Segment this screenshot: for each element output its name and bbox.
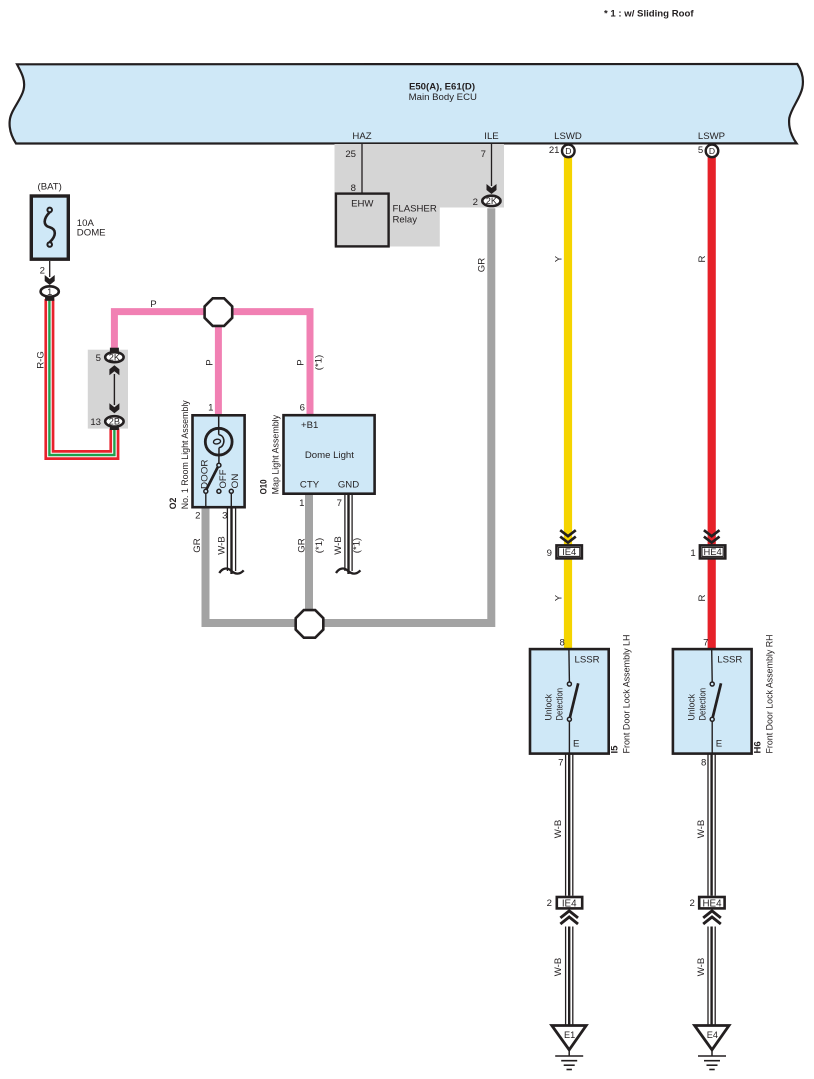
circled D terminal LSWD [549,145,575,158]
svg-text:R: R [697,594,708,601]
svg-text:2: 2 [473,197,478,208]
svg-text:7: 7 [337,498,342,509]
svg-text:2: 2 [40,266,45,277]
svg-text:DOME: DOME [77,228,106,239]
svg-text:I5: I5 [610,745,621,754]
note: w/ Sliding Roof [604,9,694,20]
junction octagon P [205,298,233,326]
svg-text:1: 1 [299,498,304,509]
svg-text:R-G: R-G [36,351,47,369]
svg-text:EHW: EHW [351,199,374,210]
map light box [284,415,375,494]
svg-text:DOOR: DOOR [200,459,210,489]
svg-text:FLASHER: FLASHER [393,204,437,215]
svg-text:IE4: IE4 [562,546,576,557]
wire R-G from connector 1 to connector 2B [49,299,114,455]
svg-text:7: 7 [703,638,708,649]
svg-text:1: 1 [690,548,695,559]
connector IE4 (pin 9) with arrows [547,530,582,559]
svg-text:ILE: ILE [484,131,498,142]
connector 2B [110,424,119,430]
svg-text:W-B: W-B [696,958,707,976]
svg-text:No. 1 Room Light Assembly: No. 1 Room Light Assembly [180,400,190,509]
connector IE4 (pin 2) [557,897,582,908]
svg-text:E1: E1 [564,1030,575,1040]
svg-text:H6: H6 [753,741,764,753]
lamp [218,415,220,434]
wire between 2K and 2B [113,374,115,405]
svg-text:Detection: Detection [555,688,565,721]
svg-text:LSWD: LSWD [554,131,582,142]
wire fuse pin 2 [49,261,51,277]
room light assembly O2 [168,400,245,521]
svg-text:7: 7 [481,149,486,160]
svg-text:Y: Y [554,255,565,262]
wire break squiggle [219,569,243,574]
arrow up into 2K [109,365,119,375]
ground E1 [552,1026,586,1050]
svg-text:Unlock: Unlock [687,694,697,721]
wire GR from 2K(ILE) down, across to junction, up to room light pin 2 [206,208,492,623]
connector oval 1 [45,295,54,301]
door lock RH box [673,649,752,754]
svg-text:CTY: CTY [300,480,320,491]
svg-text:W-B: W-B [217,536,228,554]
svg-text:2K: 2K [486,196,498,206]
svg-text:D: D [565,146,571,156]
svg-text:13: 13 [90,417,101,428]
wire Y from LSWD to door lock LH [564,157,572,650]
connector HE4 (pin 1) with arrows [690,530,725,559]
svg-text:8: 8 [559,638,564,649]
arrow down into 2B [109,403,119,413]
connectors [88,145,726,638]
svg-text:Y: Y [554,594,565,601]
wire HAZ pin 25 to EHW pin 8 [361,144,363,194]
svg-text:E50(A), E61(D): E50(A), E61(D) [409,81,475,92]
svg-text:IE4: IE4 [562,898,577,909]
svg-text:Map Light Assembly: Map Light Assembly [271,415,281,495]
fuse box [31,196,68,259]
svg-text:HAZ: HAZ [352,131,371,142]
svg-text:3: 3 [222,510,227,521]
ground path LH: W-B to IE4 to E1 [547,754,587,1070]
svg-text:GR: GR [192,538,203,552]
wire GR from map light CTY to junction [305,493,313,623]
svg-text:2: 2 [195,510,200,521]
ground path RH: W-B to HE4 to E4 [689,754,729,1070]
wire P from 2K to junction to room light and map light [114,312,310,416]
svg-text:GND: GND [338,480,359,491]
svg-text:(BAT): (BAT) [38,182,62,193]
svg-text:1: 1 [208,403,213,414]
svg-text:8: 8 [351,183,356,194]
svg-text:6: 6 [300,403,305,414]
wire R from LSWP to door lock RH [708,157,716,650]
svg-text:LSSR: LSSR [717,655,742,666]
arrow into connector 2K [487,184,497,194]
door lock assembly LH I5 [530,635,632,754]
svg-text:(*1): (*1) [314,538,325,553]
svg-text:GR: GR [297,538,308,552]
svg-text:1: 1 [47,287,52,297]
junction octagon GR [296,610,324,638]
svg-text:Front Door Lock Assembly LH: Front Door Lock Assembly LH [622,635,632,754]
svg-text:Dome Light: Dome Light [305,450,354,461]
svg-text:+B1: +B1 [301,420,318,431]
arrows up into IE4 [560,911,578,918]
connector block 2K/2B gray panel [88,350,128,429]
wire ILE pin 7 [491,144,493,186]
svg-text:Front Door Lock Assembly RH: Front Door Lock Assembly RH [765,635,775,754]
svg-text:P: P [296,359,307,365]
EHW box [336,194,389,247]
svg-text:D: D [709,146,715,156]
svg-text:2: 2 [547,898,552,909]
unlock detection switch [568,649,571,682]
wire W-B door lock RH pin 8 to HE4 pin 2 [708,754,715,896]
svg-text:Detection: Detection [698,688,708,721]
door lock assembly RH H6 [673,635,775,754]
svg-text:(*1): (*1) [314,355,325,370]
svg-text:P: P [205,359,216,365]
wire break squiggle [336,569,360,574]
svg-text:R: R [697,255,708,262]
ground E4 [695,1026,729,1050]
relay gray block FLASHER Relay [335,144,505,247]
svg-text:2: 2 [689,898,694,909]
wire W-B door lock LH pin 7 to IE4 pin 2 [566,754,573,896]
svg-text:O10: O10 [259,479,269,494]
svg-text:Main Body ECU: Main Body ECU [409,92,477,103]
wire W-B HE4 to ground E4 [708,927,715,1026]
svg-text:* 1 : w/ Sliding Roof: * 1 : w/ Sliding Roof [604,9,694,20]
circled D terminal LSWP [698,145,718,158]
svg-text:O2: O2 [168,498,178,510]
svg-text:7: 7 [558,758,563,769]
svg-text:(*1): (*1) [352,538,363,553]
room light box [193,415,245,507]
connector 1 stub [45,296,54,301]
svg-text:E4: E4 [707,1030,718,1040]
svg-text:2K: 2K [109,353,121,363]
svg-text:E: E [573,739,579,750]
svg-text:8: 8 [701,758,706,769]
svg-text:HE4: HE4 [703,546,721,557]
switch DOOR/OFF/ON [217,463,221,467]
svg-text:W-B: W-B [696,820,707,838]
svg-text:25: 25 [345,149,356,160]
connector HE4 (pin 2) [699,897,724,908]
svg-text:W-B: W-B [553,820,564,838]
wire P branch to room light [215,312,222,416]
fuse element [47,208,52,213]
relay block background [335,144,505,247]
svg-text:LSWP: LSWP [698,131,725,142]
svg-text:P: P [150,299,156,310]
svg-text:9: 9 [547,548,552,559]
arrows up into HE4 [703,911,721,918]
arrow into connector 1 [45,275,55,285]
svg-text:W-B: W-B [333,536,344,554]
svg-text:Unlock: Unlock [544,694,554,721]
svg-text:OFF: OFF [218,469,228,488]
svg-text:HE4: HE4 [702,898,722,909]
svg-text:GR: GR [477,258,488,272]
svg-text:E: E [716,739,722,750]
connector 2K (left) stub [110,348,119,353]
ECU banner E50(A), E61(D) Main Body ECU [10,64,803,144]
connector 2K (ILE side) [482,196,500,206]
svg-text:ON: ON [230,474,240,489]
svg-text:LSSR: LSSR [575,655,600,666]
unlock detection switch [711,649,714,682]
svg-text:2B: 2B [109,417,120,427]
wire W-B IE4 to ground E1 [566,927,573,1026]
svg-text:5: 5 [96,353,101,364]
svg-text:W-B: W-B [553,958,564,976]
wire W-B from map light GND pin 7 [345,493,352,574]
fuse 10A DOME (BAT) [31,182,105,302]
svg-text:Relay: Relay [393,215,418,226]
wire W-B from room light pin 3 [227,507,235,574]
svg-text:5: 5 [698,145,703,156]
map light assembly O10 Dome Light [259,403,375,509]
door lock LH box [530,649,609,754]
svg-text:21: 21 [549,145,560,156]
